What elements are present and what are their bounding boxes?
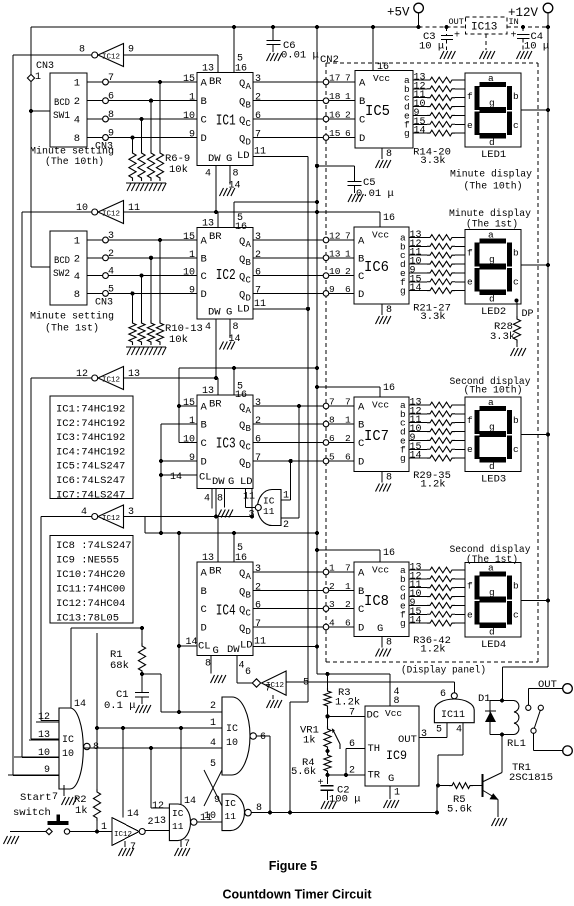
svg-text:7: 7: [52, 792, 58, 803]
svg-text:2: 2: [255, 416, 261, 427]
svg-text:g: g: [404, 128, 410, 139]
svg-text:A: A: [246, 82, 252, 92]
svg-text:a: a: [488, 230, 494, 241]
svg-text:6: 6: [345, 452, 351, 463]
svg-text:IC10:74HC20: IC10:74HC20: [56, 569, 125, 581]
svg-text:1.2k: 1.2k: [335, 697, 360, 709]
svg-text:B: B: [358, 586, 364, 598]
svg-text:11: 11: [263, 506, 275, 517]
svg-text:LED2: LED2: [481, 306, 506, 318]
svg-text:C: C: [201, 115, 207, 127]
svg-text:A: A: [246, 572, 252, 582]
svg-text:16: 16: [235, 553, 247, 564]
svg-text:SW1: SW1: [53, 111, 70, 122]
svg-text:13: 13: [202, 553, 214, 564]
svg-text:IC: IC: [62, 735, 74, 746]
svg-text:C: C: [246, 609, 252, 619]
svg-text:6: 6: [245, 667, 251, 678]
svg-text:D: D: [201, 133, 207, 145]
svg-text:12: 12: [38, 712, 50, 723]
svg-text:14: 14: [410, 451, 422, 462]
svg-text:A: A: [358, 236, 365, 248]
svg-text:11: 11: [254, 147, 266, 158]
svg-text:1: 1: [345, 581, 351, 592]
svg-text:IC9: IC9: [386, 748, 407, 763]
svg-text:LD: LD: [240, 476, 253, 488]
svg-text:5: 5: [329, 452, 335, 463]
svg-text:2: 2: [329, 581, 335, 592]
svg-text:IC4:74HC192: IC4:74HC192: [56, 446, 125, 458]
svg-text:2: 2: [74, 253, 80, 265]
svg-text:a: a: [488, 397, 494, 408]
svg-text:Q: Q: [239, 605, 245, 617]
svg-text:Q: Q: [239, 97, 245, 109]
svg-text:e: e: [467, 610, 473, 621]
svg-text:LED3: LED3: [481, 474, 506, 486]
svg-text:16: 16: [235, 64, 247, 75]
svg-text:6: 6: [345, 618, 351, 629]
svg-text:OUT: OUT: [398, 734, 417, 746]
svg-text:switch: switch: [13, 807, 51, 819]
svg-text:7: 7: [329, 397, 335, 408]
svg-text:C: C: [246, 276, 252, 286]
svg-text:16: 16: [383, 213, 395, 224]
svg-text:LD: LD: [240, 640, 253, 652]
svg-text:6: 6: [345, 284, 351, 295]
svg-text:12: 12: [152, 801, 164, 812]
svg-text:A: A: [359, 78, 366, 90]
svg-text:100 μ: 100 μ: [329, 794, 361, 806]
svg-text:A: A: [201, 568, 208, 580]
svg-text:IC12:74HC04: IC12:74HC04: [56, 598, 125, 610]
svg-text:2: 2: [345, 266, 351, 277]
svg-text:D: D: [246, 461, 251, 471]
svg-text:3: 3: [255, 398, 261, 409]
svg-text:7: 7: [130, 842, 136, 853]
svg-text:C: C: [359, 115, 365, 127]
svg-text:8: 8: [74, 133, 80, 145]
svg-text:2: 2: [255, 250, 261, 261]
svg-text:1: 1: [189, 416, 195, 427]
svg-text:G: G: [228, 476, 234, 488]
svg-text:13: 13: [329, 248, 341, 259]
svg-text:11: 11: [225, 811, 237, 822]
svg-text:2: 2: [349, 766, 355, 777]
svg-text:B: B: [201, 96, 207, 108]
svg-text:0.01 μ: 0.01 μ: [281, 50, 319, 62]
svg-text:1: 1: [329, 563, 335, 574]
svg-text:DW: DW: [208, 153, 221, 165]
svg-text:16: 16: [235, 222, 247, 233]
svg-text:Q: Q: [239, 457, 245, 469]
svg-text:c: c: [513, 444, 519, 455]
svg-text:c: c: [513, 610, 519, 621]
svg-text:7: 7: [255, 453, 261, 464]
svg-text:IC6:74LS247: IC6:74LS247: [56, 475, 125, 487]
svg-text:D: D: [358, 457, 364, 469]
svg-text:10: 10: [329, 266, 341, 277]
svg-text:1: 1: [101, 822, 107, 833]
svg-text:11: 11: [254, 299, 266, 310]
svg-text:Vcc: Vcc: [385, 708, 402, 719]
svg-text:2: 2: [255, 582, 261, 593]
svg-text:2: 2: [74, 96, 80, 108]
svg-text:B: B: [201, 586, 207, 598]
svg-text:B: B: [201, 420, 207, 432]
svg-text:12: 12: [329, 231, 341, 242]
svg-text:A: A: [358, 568, 365, 580]
svg-text:IC2:74HC192: IC2:74HC192: [56, 418, 125, 430]
svg-text:8: 8: [386, 149, 392, 160]
svg-text:1k: 1k: [75, 805, 88, 817]
svg-text:(The 1st): (The 1st): [466, 554, 518, 566]
svg-text:7: 7: [349, 708, 355, 719]
svg-text:+: +: [318, 778, 324, 789]
svg-text:(The 10th): (The 10th): [464, 385, 523, 397]
svg-text:14: 14: [414, 126, 426, 137]
svg-text:7: 7: [255, 285, 261, 296]
svg-text:(The 10th): (The 10th): [464, 181, 523, 193]
svg-text:4: 4: [74, 271, 80, 283]
svg-text:Minute setting: Minute setting: [30, 311, 114, 323]
svg-text:14: 14: [127, 809, 139, 820]
svg-text:3.3k: 3.3k: [420, 155, 445, 167]
svg-text:Figure 5: Figure 5: [269, 859, 318, 873]
svg-text:8: 8: [233, 322, 239, 333]
svg-text:D: D: [358, 623, 364, 635]
svg-text:6: 6: [260, 732, 266, 743]
svg-text:IC11: IC11: [441, 710, 465, 721]
svg-text:1: 1: [394, 788, 400, 799]
svg-text:4: 4: [329, 618, 335, 629]
svg-text:2: 2: [345, 599, 351, 610]
svg-text:+5V: +5V: [387, 6, 410, 20]
svg-text:10 μ: 10 μ: [419, 41, 444, 53]
svg-text:BCD: BCD: [54, 256, 70, 267]
svg-text:9: 9: [128, 45, 134, 56]
svg-text:10k: 10k: [169, 164, 188, 176]
svg-text:B: B: [246, 258, 252, 268]
svg-text:1: 1: [345, 91, 351, 102]
svg-text:14: 14: [410, 616, 422, 627]
svg-text:C: C: [246, 119, 252, 129]
svg-text:6: 6: [255, 268, 261, 279]
svg-text:IC8 :74LS247: IC8 :74LS247: [56, 540, 132, 552]
svg-text:DP: DP: [522, 309, 534, 320]
svg-text:Q: Q: [239, 420, 245, 432]
svg-text:A: A: [201, 78, 208, 90]
svg-text:Q: Q: [239, 134, 245, 146]
svg-text:15: 15: [183, 74, 195, 85]
svg-text:3: 3: [255, 232, 261, 243]
svg-text:2: 2: [345, 110, 351, 121]
svg-text:16: 16: [383, 383, 395, 394]
svg-text:G: G: [226, 153, 232, 165]
svg-text:1: 1: [345, 415, 351, 426]
svg-text:Countdown Timer Circuit: Countdown Timer Circuit: [222, 888, 372, 902]
svg-text:IC5: IC5: [365, 103, 390, 120]
svg-text:18: 18: [329, 91, 341, 102]
svg-text:2: 2: [283, 520, 289, 531]
svg-text:14: 14: [170, 472, 182, 483]
svg-text:7: 7: [345, 563, 351, 574]
svg-text:g: g: [400, 618, 406, 629]
svg-text:11: 11: [254, 637, 266, 648]
svg-text:Q: Q: [239, 586, 245, 598]
svg-text:b: b: [513, 415, 519, 426]
svg-text:IC7: IC7: [364, 428, 389, 445]
svg-text:D1: D1: [478, 693, 491, 705]
svg-text:DW: DW: [227, 644, 240, 656]
svg-text:D: D: [358, 289, 364, 301]
svg-text:(The 10th): (The 10th): [45, 156, 104, 168]
svg-text:Q: Q: [239, 439, 245, 451]
svg-text:IC12: IC12: [114, 831, 132, 839]
svg-text:9: 9: [214, 795, 220, 806]
svg-text:3: 3: [248, 510, 254, 521]
svg-text:5: 5: [303, 678, 309, 689]
svg-text:g: g: [489, 98, 495, 109]
svg-text:Q: Q: [239, 78, 245, 90]
svg-text:3.3k: 3.3k: [490, 331, 515, 343]
svg-text:IC8: IC8: [364, 593, 389, 610]
svg-text:Q: Q: [239, 115, 245, 127]
svg-text:IC12: IC12: [102, 515, 120, 523]
svg-text:d: d: [489, 294, 495, 305]
svg-text:3: 3: [108, 231, 114, 242]
svg-text:8: 8: [205, 659, 211, 670]
svg-text:5.6k: 5.6k: [447, 804, 472, 816]
svg-text:7: 7: [345, 397, 351, 408]
svg-text:D: D: [201, 457, 207, 469]
svg-text:g: g: [489, 587, 495, 598]
svg-text:(The 1st): (The 1st): [466, 219, 518, 231]
svg-text:9: 9: [189, 453, 195, 464]
svg-text:+: +: [454, 31, 460, 42]
svg-text:(The 1st): (The 1st): [45, 323, 99, 335]
svg-text:8: 8: [233, 169, 239, 180]
svg-text:2SC1815: 2SC1815: [509, 772, 553, 784]
svg-text:C: C: [358, 271, 364, 283]
svg-text:10k: 10k: [169, 334, 188, 346]
svg-text:1.2k: 1.2k: [420, 644, 445, 656]
svg-text:e: e: [467, 444, 473, 455]
svg-text:D: D: [359, 133, 365, 145]
svg-text:e: e: [467, 277, 473, 288]
svg-text:9: 9: [329, 284, 335, 295]
svg-text:10: 10: [62, 749, 74, 760]
svg-text:2: 2: [345, 433, 351, 444]
svg-text:IC2: IC2: [216, 268, 236, 284]
svg-text:IC1: IC1: [216, 114, 236, 130]
svg-text:IC: IC: [225, 798, 237, 809]
svg-text:6: 6: [255, 111, 261, 122]
svg-text:5: 5: [210, 759, 216, 770]
svg-text:6: 6: [349, 739, 355, 750]
svg-text:BCD: BCD: [54, 98, 70, 109]
svg-text:C: C: [358, 438, 364, 450]
svg-text:C: C: [201, 438, 207, 450]
svg-text:IC: IC: [263, 496, 275, 507]
svg-text:e: e: [467, 120, 473, 131]
svg-text:6: 6: [345, 128, 351, 139]
svg-text:Vcc: Vcc: [373, 73, 390, 84]
svg-text:C: C: [246, 443, 252, 453]
svg-text:LD: LD: [237, 150, 250, 162]
svg-text:IC: IC: [172, 808, 184, 819]
svg-text:13: 13: [38, 730, 50, 741]
svg-text:1: 1: [210, 718, 216, 729]
svg-text:g: g: [400, 453, 406, 464]
svg-text:9: 9: [189, 285, 195, 296]
svg-text:A: A: [358, 402, 365, 414]
svg-text:14: 14: [74, 699, 86, 710]
svg-text:6: 6: [329, 433, 335, 444]
svg-text:DW: DW: [208, 307, 221, 319]
svg-text:1: 1: [74, 78, 80, 90]
svg-text:CN2: CN2: [320, 54, 339, 66]
svg-text:CL: CL: [199, 472, 212, 484]
svg-text:IC5:74LS247: IC5:74LS247: [56, 461, 125, 473]
svg-text:1: 1: [189, 93, 195, 104]
svg-text:IC1:74HC192: IC1:74HC192: [56, 404, 125, 416]
svg-text:f: f: [467, 91, 473, 102]
svg-text:8: 8: [108, 110, 114, 121]
svg-text:C: C: [358, 604, 364, 616]
svg-text:2: 2: [210, 701, 216, 712]
svg-text:IC12: IC12: [102, 377, 120, 385]
svg-text:c: c: [513, 120, 519, 131]
svg-text:15: 15: [183, 232, 195, 243]
svg-text:8: 8: [74, 289, 80, 301]
svg-text:a: a: [488, 73, 494, 84]
svg-text:6: 6: [440, 689, 446, 700]
svg-text:8: 8: [394, 696, 400, 707]
svg-text:10: 10: [183, 435, 195, 446]
svg-text:13: 13: [202, 386, 214, 397]
svg-text:Q: Q: [239, 568, 245, 580]
svg-text:Q: Q: [239, 236, 245, 248]
svg-text:7: 7: [108, 73, 114, 84]
svg-text:B: B: [358, 253, 364, 265]
svg-text:Vcc: Vcc: [372, 565, 389, 576]
svg-text:6: 6: [255, 435, 261, 446]
svg-text:DW: DW: [212, 476, 225, 488]
svg-text:OUT: OUT: [449, 17, 464, 27]
svg-text:+: +: [511, 31, 517, 42]
svg-text:g: g: [489, 422, 495, 433]
svg-text:2: 2: [148, 817, 154, 828]
svg-text:16: 16: [383, 548, 395, 559]
svg-text:g: g: [400, 286, 406, 297]
svg-text:G: G: [377, 623, 383, 635]
svg-text:G: G: [226, 307, 232, 319]
svg-text:8: 8: [217, 494, 223, 505]
svg-text:10 μ: 10 μ: [524, 41, 549, 53]
svg-text:68k: 68k: [110, 660, 129, 672]
svg-text:13: 13: [154, 816, 166, 827]
svg-text:CN3: CN3: [36, 61, 54, 72]
svg-text:IN: IN: [509, 17, 519, 27]
svg-text:15: 15: [183, 398, 195, 409]
svg-text:1: 1: [189, 250, 195, 261]
svg-text:IC9 :NE555: IC9 :NE555: [56, 555, 119, 567]
svg-text:IC13:78L05: IC13:78L05: [56, 613, 119, 625]
svg-text:SW2: SW2: [53, 269, 70, 280]
svg-text:TR: TR: [368, 770, 381, 782]
svg-text:B: B: [358, 420, 364, 432]
svg-text:16: 16: [377, 62, 389, 73]
svg-text:3.3k: 3.3k: [420, 311, 445, 323]
svg-text:Vcc: Vcc: [372, 230, 389, 241]
svg-text:D: D: [201, 289, 207, 301]
svg-text:7: 7: [265, 684, 271, 695]
svg-text:14: 14: [410, 283, 422, 294]
svg-text:1: 1: [345, 248, 351, 259]
svg-text:DC: DC: [367, 710, 380, 722]
svg-text:f: f: [467, 248, 473, 259]
svg-text:2: 2: [108, 249, 114, 260]
svg-text:Q: Q: [239, 289, 245, 301]
svg-text:b: b: [513, 248, 519, 259]
svg-text:d: d: [489, 627, 495, 638]
svg-text:D: D: [246, 138, 251, 148]
svg-text:c: c: [513, 277, 519, 288]
svg-text:9: 9: [189, 130, 195, 141]
svg-text:LD: LD: [237, 304, 250, 316]
svg-text:Q: Q: [239, 402, 245, 414]
svg-text:IC3:74HC192: IC3:74HC192: [56, 432, 125, 444]
svg-text:A: A: [246, 406, 252, 416]
svg-text:IC4: IC4: [216, 603, 236, 619]
svg-text:4: 4: [108, 267, 114, 278]
svg-text:3: 3: [255, 74, 261, 85]
svg-text:6: 6: [255, 601, 261, 612]
svg-text:Q: Q: [239, 272, 245, 284]
svg-text:f: f: [467, 415, 473, 426]
svg-text:7: 7: [345, 231, 351, 242]
svg-text:1.2k: 1.2k: [420, 479, 445, 491]
svg-text:b: b: [513, 91, 519, 102]
svg-text:11: 11: [172, 821, 184, 832]
svg-text:8: 8: [386, 305, 392, 316]
svg-text:C: C: [201, 271, 207, 283]
svg-text:d: d: [489, 461, 495, 472]
svg-text:BR: BR: [209, 231, 222, 243]
svg-text:D: D: [246, 293, 251, 303]
svg-text:0.1 μ: 0.1 μ: [104, 700, 136, 712]
svg-text:15: 15: [329, 128, 341, 139]
svg-text:(Display panel): (Display panel): [401, 665, 486, 677]
svg-text:Vcc: Vcc: [372, 400, 389, 411]
svg-text:IC: IC: [226, 724, 238, 735]
svg-text:8: 8: [79, 45, 85, 56]
svg-text:0.01 μ: 0.01 μ: [356, 188, 394, 200]
svg-text:10: 10: [183, 268, 195, 279]
svg-text:G: G: [388, 773, 394, 785]
svg-text:1: 1: [35, 72, 41, 83]
svg-text:5.6k: 5.6k: [291, 766, 316, 778]
svg-text:10: 10: [226, 738, 238, 749]
svg-text:11: 11: [128, 203, 140, 214]
svg-text:8: 8: [386, 473, 392, 484]
svg-text:d: d: [489, 137, 495, 148]
svg-text:IC13: IC13: [471, 22, 497, 34]
svg-text:7: 7: [255, 130, 261, 141]
svg-text:13: 13: [128, 369, 140, 380]
svg-text:4: 4: [205, 322, 211, 333]
svg-text:9: 9: [108, 129, 114, 140]
